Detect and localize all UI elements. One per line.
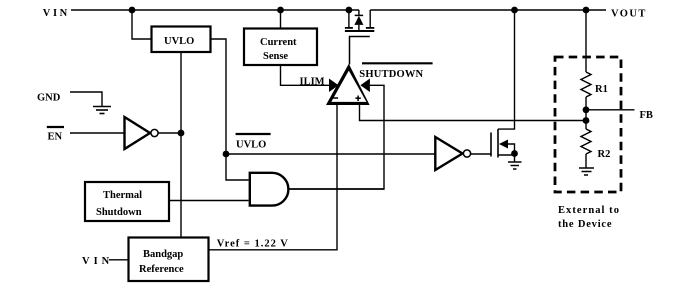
wire VOUT rail right segment bbox=[370, 9, 606, 11]
wire UVLO input bbox=[132, 10, 152, 39]
wire UVLO output right to UVLO-bar rail bbox=[211, 39, 227, 154]
wire UVLO-bar to AND gate input 1 bbox=[226, 154, 249, 180]
wire ILIM from Current Sense to comparator bbox=[281, 65, 330, 85]
label GND bbox=[37, 93, 61, 104]
svg-text:Vref = 1.22 V: Vref = 1.22 V bbox=[217, 239, 289, 250]
net VIN label (bandgap input) bbox=[82, 256, 113, 267]
wire UVLO-bar to inverter U3 bbox=[226, 153, 435, 155]
node junction rail - pass FET source bbox=[346, 7, 353, 14]
net VIN label (top left) bbox=[43, 8, 70, 19]
node FB junction bbox=[583, 106, 590, 113]
svg-text:External to: External to bbox=[558, 205, 620, 216]
svg-text:Sense: Sense bbox=[263, 51, 288, 62]
op-amp comparator U1 current limit bbox=[326, 64, 370, 105]
label Vref = 1.22 V bbox=[217, 239, 289, 250]
svg-text:Reference: Reference bbox=[139, 264, 184, 275]
net VOUT label bbox=[611, 9, 647, 20]
wire inverter U2 output bbox=[158, 132, 181, 134]
wire UVLO bottom to bandgap enable rail bbox=[180, 52, 182, 238]
svg-text:Thermal: Thermal bbox=[103, 190, 142, 201]
node junction UVLO-bar bbox=[223, 151, 230, 158]
wire comparator minus input to Vref bbox=[209, 104, 338, 250]
wire EN input bbox=[70, 132, 124, 134]
wire VIN rail left segment bbox=[71, 9, 359, 11]
svg-text:Current: Current bbox=[260, 37, 297, 48]
block Bandgap Reference bbox=[129, 238, 209, 282]
svg-text:EN: EN bbox=[48, 131, 63, 142]
gate AND U4 bbox=[250, 173, 289, 206]
ground symbol R2 bbox=[579, 168, 594, 175]
wire VIN to bandgap bbox=[109, 259, 129, 261]
svg-text:UVLO: UVLO bbox=[164, 36, 194, 47]
svg-text:the Device: the Device bbox=[558, 219, 612, 230]
svg-text:SHUTDOWN: SHUTDOWN bbox=[359, 69, 423, 80]
label EN with overline bbox=[47, 127, 64, 142]
wire comparator plus input to FB bbox=[360, 104, 587, 121]
dashed box external components bbox=[555, 57, 621, 192]
ground symbol GND pin bbox=[93, 107, 111, 114]
wire comparator output to pass FET gate bbox=[350, 37, 370, 65]
label SHUTDOWN with overline bbox=[359, 63, 432, 80]
node junction plus-input tap bbox=[583, 117, 590, 124]
wire VOUT to R1 bbox=[585, 10, 587, 72]
svg-text:R2: R2 bbox=[598, 149, 611, 160]
node junction rail - discharge FET tap bbox=[511, 7, 518, 14]
transistor Q2 discharge FET bbox=[491, 10, 518, 162]
wire R1 to FB node bbox=[585, 97, 587, 129]
resistor R2 bbox=[581, 129, 610, 160]
svg-text:FB: FB bbox=[640, 110, 653, 121]
wire R2 to ground bbox=[585, 154, 587, 168]
svg-text:ILIM: ILIM bbox=[300, 77, 325, 88]
node junction rail-CurrentSense tap bbox=[277, 7, 284, 14]
node junction rail-UVLO tap bbox=[129, 7, 136, 14]
svg-text:Bandgap: Bandgap bbox=[143, 249, 183, 260]
wire AND output to SHUTDOWN arrow bbox=[289, 85, 384, 189]
svg-text:UVLO: UVLO bbox=[236, 139, 266, 150]
transistor Q1 pass FET bbox=[345, 10, 374, 31]
inverter U3 discharge driver bbox=[435, 137, 470, 170]
label External to the Device bbox=[558, 205, 620, 230]
block UVLO bbox=[152, 27, 211, 53]
arrow SHUTDOWN into comparator plus side bbox=[360, 79, 370, 93]
svg-text:R1: R1 bbox=[595, 84, 608, 95]
arrow ILIM into comparator minus side bbox=[329, 79, 339, 93]
block Current Sense bbox=[244, 29, 317, 66]
label UVLO-bar with overline bbox=[236, 134, 271, 150]
wire FB out bbox=[586, 109, 635, 111]
resistor R1 bbox=[581, 72, 608, 97]
wire inverter U3 output to Q2 gate bbox=[471, 153, 491, 155]
label ILIM bbox=[300, 77, 325, 88]
wire Thermal Shutdown to AND gate input 2 bbox=[169, 200, 249, 202]
inverter U2 EN buffer bbox=[125, 117, 159, 149]
svg-text:VIN: VIN bbox=[43, 8, 70, 19]
node junction EN-inverter output on enable rail bbox=[178, 130, 185, 137]
node junction rail - R1 tap bbox=[583, 7, 590, 14]
svg-text:VIN: VIN bbox=[82, 256, 113, 267]
block Thermal Shutdown bbox=[85, 182, 169, 221]
svg-text:GND: GND bbox=[37, 93, 61, 104]
svg-text:VOUT: VOUT bbox=[611, 9, 647, 20]
wire GND bbox=[70, 92, 102, 106]
wire Current Sense input bbox=[280, 10, 282, 29]
svg-text:Shutdown: Shutdown bbox=[96, 207, 142, 218]
ground symbol Q2 source bbox=[508, 162, 522, 169]
net FB label bbox=[640, 110, 653, 121]
wire AND gate output bbox=[289, 188, 384, 190]
